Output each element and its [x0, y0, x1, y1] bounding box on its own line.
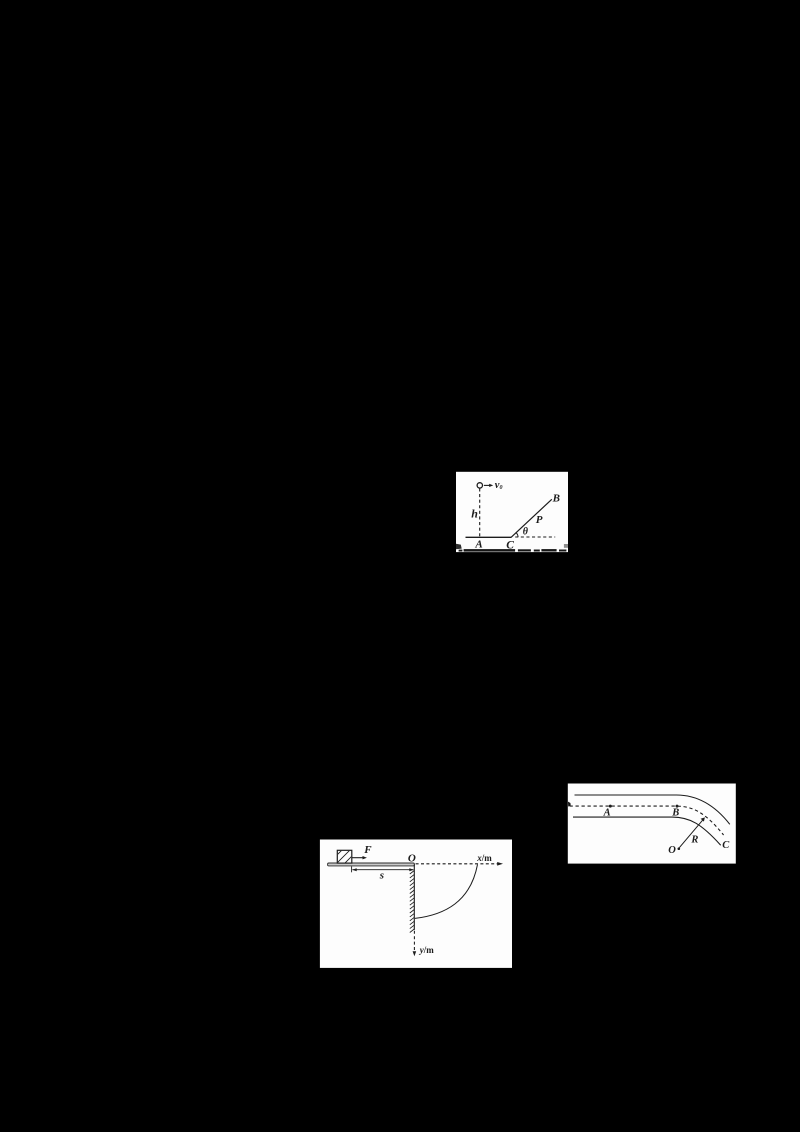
ground line AC — [466, 536, 512, 538]
road center dashed line — [570, 806, 724, 835]
ball (projectile) — [477, 483, 482, 488]
svg-text:P: P — [536, 514, 543, 526]
wall line under O — [413, 864, 415, 930]
table bar — [328, 863, 415, 866]
dashed drop line h — [479, 488, 481, 537]
svg-text:A: A — [603, 808, 611, 819]
svg-text:θ: θ — [523, 526, 529, 537]
svg-text:O: O — [668, 845, 676, 856]
y axis arrowhead — [413, 951, 417, 956]
svg-text:y/m: y/m — [419, 945, 435, 955]
figure 2 panel — [568, 784, 736, 864]
svg-text:B: B — [552, 493, 560, 505]
svg-text:x/m: x/m — [476, 853, 492, 863]
svg-text:s: s — [379, 870, 384, 882]
block on table — [330, 845, 368, 883]
svg-text:C: C — [722, 840, 730, 851]
trajectory curve — [415, 865, 478, 919]
svg-text:A: A — [474, 539, 482, 551]
angle arc at C — [516, 533, 518, 537]
v0 arrow — [484, 484, 493, 487]
figure 3 panel — [320, 840, 512, 968]
scan artifact bottom text strip — [459, 549, 567, 552]
road inner (bottom) line — [573, 817, 721, 845]
figure 1 panel — [456, 472, 568, 552]
dashed horizontal from C — [515, 536, 555, 538]
x axis arrowhead — [497, 862, 503, 866]
point A dot — [609, 805, 612, 808]
clipped character at left edge — [568, 802, 571, 807]
incline CB — [511, 499, 552, 537]
svg-text:O: O — [408, 853, 416, 865]
point O dot — [678, 847, 681, 850]
svg-text:B: B — [671, 808, 679, 819]
road outer (top) line — [575, 795, 730, 824]
scan artifact bottom-left blob — [456, 544, 462, 549]
x axis dashed — [416, 863, 498, 865]
force F arrow — [352, 856, 367, 859]
svg-text:F: F — [363, 844, 372, 856]
s dimension arrow — [352, 868, 414, 871]
svg-text:h: h — [471, 506, 478, 520]
point B dot — [676, 805, 679, 808]
y axis dashed — [413, 931, 415, 952]
scan artifact right gray square — [564, 544, 568, 548]
s tick mark — [351, 867, 353, 873]
wall hatching — [410, 871, 415, 933]
svg-text:R: R — [690, 834, 698, 845]
radius arrow OR — [679, 817, 705, 847]
